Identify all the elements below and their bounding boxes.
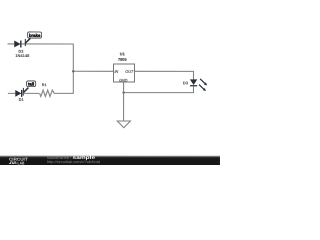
wire: D2 cathode to vertical bus <box>22 43 74 45</box>
svg-text:1N4148: 1N4148 <box>15 53 30 58</box>
wire: D2 anode lead <box>8 43 15 45</box>
svg-text:OUT: OUT <box>125 70 134 74</box>
watermark bar <box>0 155 220 166</box>
svg-text:R1: R1 <box>42 83 47 87</box>
svg-text:D3: D3 <box>183 80 189 85</box>
wire: bus to U1 IN <box>73 70 113 72</box>
svg-text:tail: tail <box>28 82 34 87</box>
diode D1 body <box>15 90 21 97</box>
resistor R1 <box>40 90 55 96</box>
junction: bus to regulator input <box>72 70 74 72</box>
ground <box>117 121 130 128</box>
wire: D1 cathode to resistor <box>22 92 39 94</box>
svg-text:7805: 7805 <box>118 57 127 62</box>
diode D2 body <box>14 40 21 47</box>
wire: vertical bus <box>72 44 74 94</box>
wire: U1 GND stem <box>123 82 125 121</box>
wire: U1 OUT to LED <box>135 71 194 79</box>
svg-text:IN: IN <box>115 70 119 74</box>
svg-text:http://circuitlab.com/c/7wb5c4: http://circuitlab.com/c/7wb5c4d <box>47 160 100 164</box>
svg-text:brake: brake <box>29 33 41 38</box>
svg-text:D1: D1 <box>19 97 25 102</box>
net flag "tail" <box>23 81 35 96</box>
wire: resistor to vertical bus <box>54 92 73 94</box>
wire: LED cathode down and back to ground rail <box>124 86 194 92</box>
svg-text:LAB: LAB <box>18 161 25 165</box>
wire: D1 anode lead <box>8 92 15 94</box>
junction: ground rail <box>122 91 124 93</box>
svg-text:U1: U1 <box>120 51 126 56</box>
net flag "brake" <box>25 32 42 46</box>
op-amp U1 regulator box <box>114 64 135 82</box>
LED D3 <box>190 79 207 91</box>
